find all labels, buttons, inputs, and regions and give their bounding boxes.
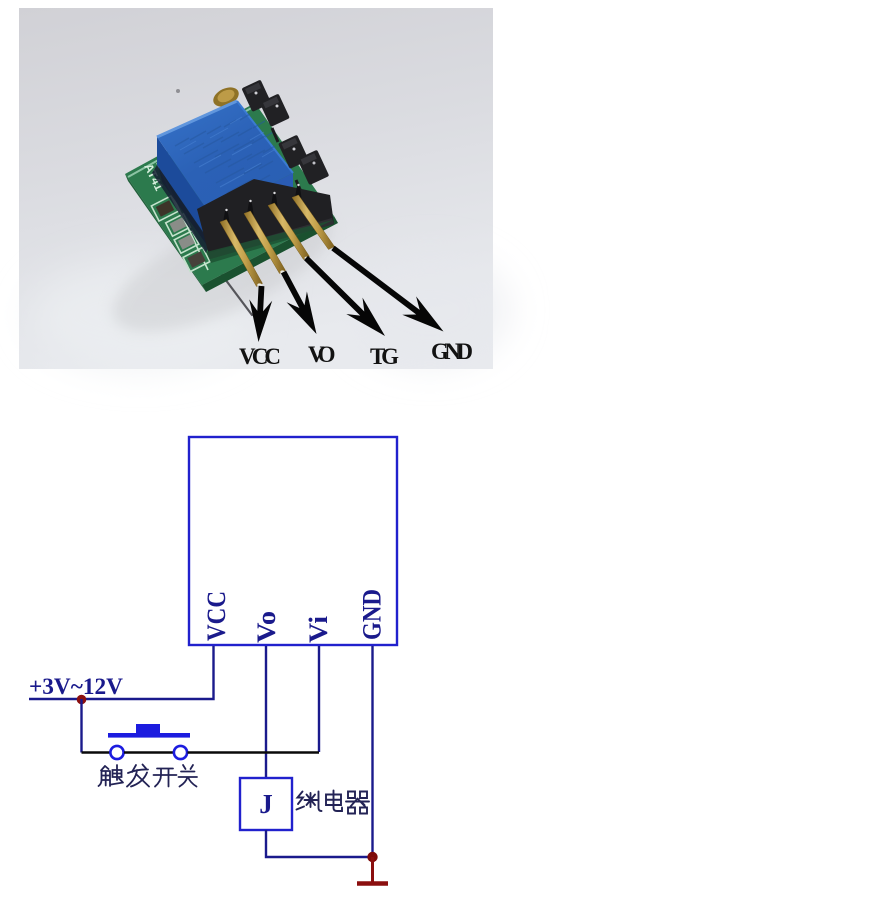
- arrow GND: [331, 246, 443, 332]
- 关: [179, 765, 198, 787]
- 开: [154, 769, 177, 787]
- ground wire: [371, 857, 374, 882]
- wire to switch left: [82, 751, 110, 753]
- black pin tops: [223, 184, 302, 224]
- svg-text:+3V~12V: +3V~12V: [29, 674, 123, 699]
- svg-text:GND: GND: [357, 589, 387, 640]
- wire Vo pin down: [265, 646, 267, 778]
- svg-text:J: J: [259, 789, 273, 819]
- switch button bump: [136, 724, 160, 733]
- svg-text:TG: TG: [370, 344, 399, 369]
- ground bar: [357, 881, 388, 886]
- PCB silkscreen edge line: [157, 163, 208, 270]
- wire GND pin down: [371, 646, 373, 857]
- svg-text:VCC: VCC: [239, 344, 281, 369]
- black pin header top-right cluster: [241, 80, 329, 186]
- pot base shadow strip: [152, 165, 210, 253]
- switch bar: [108, 733, 190, 738]
- pot shadow dark: [157, 160, 216, 258]
- under-header board shading: [206, 220, 333, 263]
- junction dot: [77, 695, 87, 705]
- switch left contact: [110, 746, 123, 759]
- svg-text:VO: VO: [308, 342, 336, 367]
- wire VCC pin down + left: [29, 646, 214, 699]
- wire junction down: [80, 699, 82, 753]
- svg-text:VCC: VCC: [201, 591, 231, 641]
- svg-text:Vo: Vo: [251, 611, 281, 643]
- 电: [326, 791, 342, 812]
- trimmer pot left face: [157, 137, 210, 242]
- trigger switch label 触发开关: [99, 765, 198, 787]
- svg-text:Vi: Vi: [303, 616, 333, 643]
- 发: [127, 765, 149, 787]
- wire J bottom to ground node: [266, 830, 373, 857]
- silkscreen component outlines: [151, 196, 210, 272]
- ground junction dot: [367, 852, 377, 862]
- dust speck: [176, 89, 180, 93]
- 器: [346, 792, 369, 814]
- photo background: [19, 8, 493, 369]
- 触: [99, 766, 111, 786]
- relay label 继电器: [297, 791, 370, 814]
- switch right contact: [174, 746, 187, 759]
- board shadow: [97, 184, 347, 357]
- svg-text:GND: GND: [431, 339, 473, 364]
- relay box J: [240, 778, 292, 830]
- photo labels: [239, 339, 473, 369]
- arrow VCC: [249, 286, 272, 342]
- module box: [189, 437, 397, 645]
- pot texture: [175, 114, 275, 201]
- trimmer pot top face: [157, 101, 293, 214]
- arrow VO: [281, 271, 317, 334]
- PCB board: [125, 103, 334, 285]
- wire Vi pin down: [318, 646, 320, 752]
- bottom header black block: [197, 179, 334, 259]
- stray wire leg: [219, 271, 252, 315]
- brass screw: [210, 84, 242, 111]
- wire switch to Vi: [188, 751, 320, 753]
- arrow TG: [304, 256, 385, 336]
- gold pins: [220, 195, 335, 287]
- wire between contacts: [124, 751, 174, 753]
- 继: [297, 792, 322, 812]
- trimmer pot right face: [210, 173, 293, 242]
